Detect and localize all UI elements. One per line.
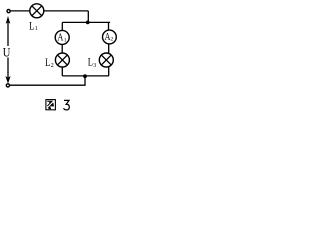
wire junction down to bottom rail [84, 76, 86, 85]
lamp L2 [55, 53, 69, 67]
voltage arrow U upper segment [7, 23, 9, 47]
svg-text:1: 1 [35, 26, 38, 32]
arrowhead up [6, 16, 11, 24]
arrowhead down [5, 76, 10, 84]
label figure caption: 3 [64, 100, 70, 110]
junction node dot top [86, 21, 90, 25]
svg-text:U: U [3, 44, 11, 59]
lamp L3 [99, 53, 113, 67]
wire A1 to L2 [61, 44, 63, 53]
svg-text:L: L [29, 18, 34, 32]
lamp L1 [30, 4, 44, 18]
svg-text:2: 2 [51, 63, 54, 69]
svg-text:A: A [57, 32, 63, 43]
node bottom-left terminal [6, 84, 9, 87]
wire top distribution bar [62, 21, 110, 23]
svg-text:3: 3 [93, 63, 96, 69]
wire top rail left [10, 10, 29, 12]
node top-left terminal [7, 10, 10, 13]
junction node dot bottom [83, 74, 87, 78]
wire bottom distribution bar [62, 75, 109, 77]
svg-text:L: L [45, 55, 50, 69]
wire bottom rail [10, 84, 86, 86]
label figure caption: 图 character drawn as paths [46, 100, 56, 110]
wire L3 down to bottom bar [108, 67, 110, 76]
svg-text:2: 2 [111, 36, 114, 42]
wire L2 down to bottom bar [61, 67, 63, 76]
wire top rail right [44, 10, 89, 12]
voltage arrow U lower segment [7, 58, 9, 78]
svg-text:1: 1 [64, 37, 67, 43]
wire right branch down to A2 [108, 22, 110, 30]
ammeter A1 [55, 30, 69, 44]
ammeter A2 [103, 30, 117, 44]
wire A2 to L3 [108, 44, 110, 54]
wire corner down to junction [87, 11, 89, 23]
wire left branch down to A1 [61, 22, 63, 30]
